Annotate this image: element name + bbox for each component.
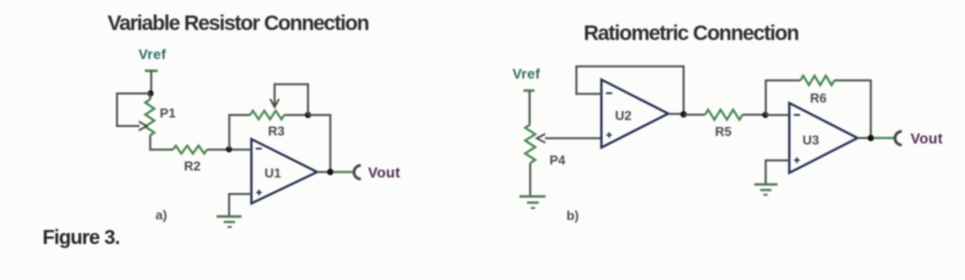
resistor R2 [173, 146, 207, 154]
svg-text:P4: P4 [550, 153, 567, 168]
wire: R3 right to junction [284, 114, 308, 116]
op-amp U2 [601, 80, 668, 148]
resistor R5 [705, 110, 743, 120]
node: U2 output junction [680, 111, 686, 117]
wire: P4 bottom to ground [529, 163, 531, 196]
wire: inverting node to U3 minus input [765, 114, 789, 116]
wire: inverting node up to R3 row [229, 115, 250, 149]
svg-text:Vout: Vout [368, 166, 400, 182]
potentiometer P1 body [145, 100, 154, 136]
terminal Vref left (T-bar) [145, 70, 158, 73]
node: U1 inverting input junction [226, 146, 232, 152]
P4 wiper arrowhead [537, 134, 545, 143]
wire: U3 output node to connector (green) [874, 137, 895, 139]
terminal Vref right (T-bar) [524, 89, 535, 92]
U2 minus pin mark [606, 92, 612, 94]
node: P1 top junction [147, 90, 153, 96]
svg-text:R5: R5 [715, 124, 732, 139]
svg-text:U3: U3 [803, 133, 820, 148]
svg-text:R3: R3 [268, 124, 285, 139]
wire: U3 apex to output node [858, 137, 871, 139]
wire: R6 feedback branch (up, over with R6, down to output) [766, 80, 871, 138]
connector pin Vout left [354, 165, 361, 179]
wire: P1 bottom to R2 [150, 136, 173, 150]
svg-text:a): a) [156, 208, 168, 223]
resistor R6 [800, 76, 834, 85]
wire: right Vref stem to P4 [529, 91, 531, 125]
R3 wiper arrowhead [270, 99, 279, 107]
wire: U2 feedback loop (minus stub, up, over, down to output) [576, 66, 683, 114]
wire: P4 wiper to U2 plus input [545, 137, 601, 139]
wire: R2 to inverting node [207, 149, 229, 151]
svg-text:Vref: Vref [513, 66, 541, 82]
svg-text:Vout: Vout [911, 132, 943, 148]
U3 minus pin mark [794, 114, 800, 116]
wire: R3 junction to output column [308, 115, 330, 172]
svg-text:b): b) [567, 208, 579, 223]
op-amp U1 [251, 139, 317, 203]
node: U3 inverting input junction [762, 112, 768, 118]
wire: U1 plus input to ground [229, 194, 251, 216]
op-amp U3 [789, 103, 857, 173]
ground (P4) [519, 196, 545, 208]
svg-text:P1: P1 [160, 106, 176, 121]
wire: output node to connector (green) [333, 171, 353, 173]
svg-text:U1: U1 [265, 166, 282, 181]
U1 plus pin mark [256, 190, 262, 196]
wire: node to P1 top [149, 94, 151, 100]
svg-text:R6: R6 [810, 91, 827, 106]
U3 plus pin mark [794, 157, 800, 163]
node: U1 output junction [327, 169, 333, 175]
wire: R5 to U3 inverting node [743, 114, 766, 116]
svg-text:R2: R2 [184, 159, 201, 174]
svg-text:Variable Resistor Connection: Variable Resistor Connection [108, 12, 369, 35]
ground (U1) [217, 217, 242, 228]
wire: U1 output apex to output node [317, 171, 330, 173]
R3 wiper arrow shaft [274, 83, 276, 105]
U1 minus pin mark [256, 148, 262, 150]
P1 wiper arrowhead [139, 122, 147, 131]
node: R3 right junction [305, 112, 311, 118]
potentiometer P4 body [525, 125, 535, 164]
wire: U2 output to R5 [684, 114, 705, 116]
node: U3 output junction [868, 135, 874, 141]
wire: U3 plus input to ground [766, 160, 790, 184]
connector pin Vout right [895, 131, 902, 145]
ground (U3) [754, 184, 777, 194]
resistor R3 (variable) [250, 111, 284, 120]
wire: R3 wiper loop (up-right-down) [275, 84, 308, 115]
svg-text:U2: U2 [615, 108, 632, 123]
svg-text:Figure 3.: Figure 3. [43, 227, 120, 249]
U2 plus pin mark [606, 132, 612, 138]
wire: U2 apex to output node [668, 113, 683, 115]
wire: inverting node to U1 minus input [232, 149, 251, 151]
wire: Vref terminal stem to node [150, 71, 152, 94]
wire: P1 wiper short loop (node-left-down) [117, 94, 151, 127]
svg-text:Ratiometric Connection: Ratiometric Connection [584, 22, 799, 45]
svg-text:Vref: Vref [139, 46, 167, 62]
